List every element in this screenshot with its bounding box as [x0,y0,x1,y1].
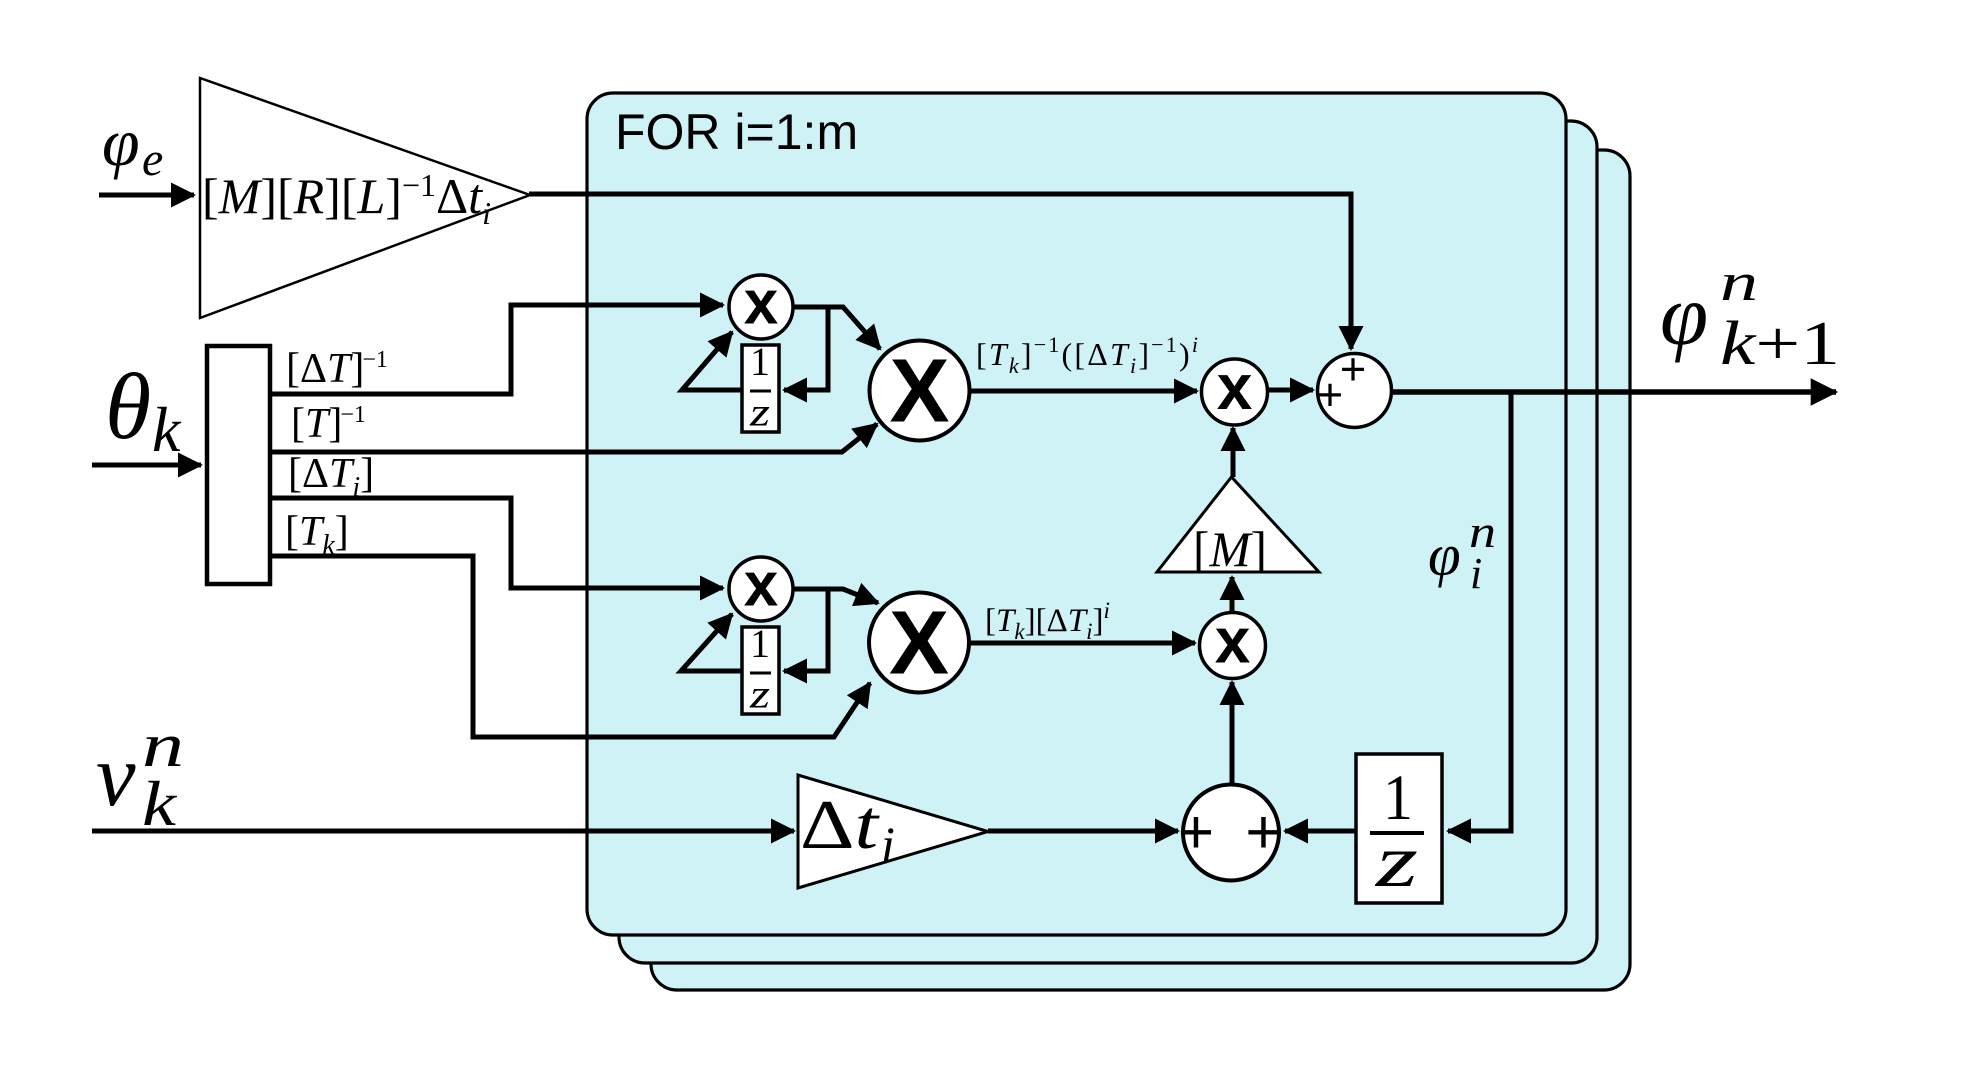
wire M1 output to multiplier X1 (diagonal) [792,307,880,349]
svg-text:[T]−1: [T]−1 [291,401,366,447]
wire S2 output up to M4 [1230,682,1235,784]
FOR-loop frame 2 (middle layer) [619,121,1597,963]
wire X2 output to multiplier M4 [969,641,1195,646]
wire gain G1 output to summator S1 top [529,194,1351,349]
multiplier X1 (big X circle, upper) [870,341,970,441]
node phi_e input label [102,104,163,186]
multiplier M1 (small x circle, upper accumulator) [729,275,793,339]
svg-text:X: X [889,342,949,442]
svg-text:v: v [96,727,136,825]
svg-text:x: x [1217,351,1253,423]
wire demux out 2 [T]^-1 to multiplier X1 [270,424,877,452]
svg-text:φ: φ [1428,522,1461,588]
wire gain G2 to multiplier M3 [1231,428,1236,477]
svg-text:i: i [881,816,895,872]
multiplier M2 (small x circle, lower accumulator) [729,557,793,621]
wire delay Z1 feedback to M1 [682,332,742,390]
svg-text:φ: φ [102,104,140,180]
wire demux out 4 [T_k] to multiplier X2 [270,556,870,737]
node phi n i label [1428,506,1496,598]
svg-text:k+1: k+1 [1720,310,1840,378]
svg-text:+: + [1245,798,1281,867]
wire M2 output down into delay Z2 [784,587,828,671]
wire gain G3 output to summator S2 [988,829,1178,834]
svg-text:1: 1 [750,339,770,384]
svg-text:[ΔTi]: [ΔTi] [288,451,374,503]
svg-text:X: X [889,594,949,694]
svg-text:Δt: Δt [800,787,880,864]
svg-text:k: k [142,768,178,839]
wire M4 to gain G2 [1230,577,1235,612]
svg-text:[Tk]: [Tk] [285,509,349,561]
svg-text:z: z [749,390,771,435]
svg-text:[M]: [M] [1193,521,1267,577]
wire v n k input to gain G3 [92,829,794,834]
gain G2 [M] triangle [1157,477,1319,572]
wire X1 output to multiplier M3 [969,389,1197,394]
svg-text:[M][R][L]−1Δti: [M][R][L]−1Δti [202,167,491,231]
svg-text:x: x [744,551,779,620]
svg-text:z: z [749,672,771,717]
svg-text:n: n [1720,252,1758,312]
svg-text:1: 1 [750,621,770,666]
multiplier X2 (big X circle, lower) [869,593,969,693]
wire demux out 3 [dT_i] to multiplier M2 [270,498,723,588]
svg-text:θ: θ [105,355,151,459]
delay Z1 (1/z) [742,345,779,432]
FOR-loop frame 3 (back layer) [651,150,1630,990]
wire demux out 1 [dT]^-1 to multiplier M1 [270,305,723,394]
label of gain G1 [202,167,491,231]
svg-text:+: + [1340,344,1366,395]
gain G3 dt_i triangle [798,775,988,888]
summator S1 [1318,354,1392,428]
delay Z2 (1/z) [742,627,779,714]
svg-text:i: i [1470,549,1482,598]
wire M2 output to multiplier X2 (diagonal) [792,589,878,603]
wire M3 to summator S1 [1268,388,1313,393]
wire M1 output down into delay Z1 [784,305,828,390]
delay Z3 (1/z) [1356,754,1442,903]
node theta_k input label [105,355,182,465]
wire delay Z3 output to summator S2 [1285,829,1356,834]
wire S1 output phi n k+1 [1392,389,1836,395]
node phi n k+1 output label [1660,252,1840,378]
multiplier M3 (x circle before summator S1) [1202,359,1268,425]
svg-text:e: e [142,133,163,186]
svg-text:k: k [152,394,182,465]
svg-text:FOR i=1:m: FOR i=1:m [615,104,858,160]
svg-text:x: x [1215,605,1251,677]
svg-text:z: z [1375,820,1418,903]
wire delay Z2 feedback to M2 [681,614,742,671]
wire phi_e input arrow [99,193,194,198]
svg-text:+: + [1178,798,1214,867]
demux D1 [207,346,270,584]
wire S1 output branch down to delay Z3 [1448,392,1511,831]
FOR-loop frame 1 (front layer) [587,93,1566,935]
svg-text:φ: φ [1660,266,1708,363]
svg-text:+: + [1317,369,1343,420]
gain G1 [M][R][L]^-1 dt_i triangle [200,78,530,318]
summator S2 [1183,785,1279,881]
svg-text:x: x [744,269,779,338]
multiplier M4 (x circle above summator S2) [1200,613,1266,679]
wire theta_k input arrow [92,463,201,468]
svg-text:[ΔT]−1: [ΔT]−1 [286,346,388,392]
node v n k input label [96,712,184,839]
